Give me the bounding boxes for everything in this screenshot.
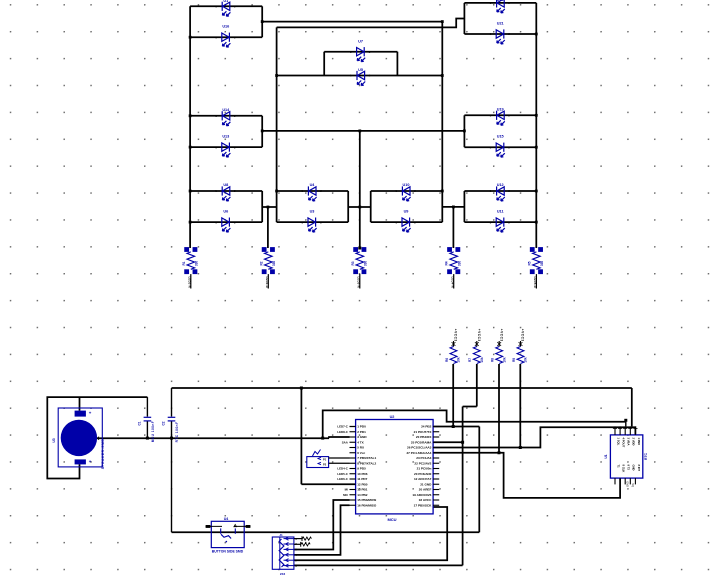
wire inner cell top	[324, 51, 397, 53]
svg-text:12 ADC7/A7: 12 ADC7/A7	[414, 477, 432, 481]
LED U20	[497, 0, 505, 13]
LED U9	[402, 218, 411, 233]
junction	[358, 130, 361, 133]
wire to MCU pin3	[329, 437, 350, 438]
svg-text:8 PB7/XTAL2: 8 PB7/XTAL2	[357, 461, 376, 465]
svg-text:R9: R9	[512, 358, 516, 362]
wire middle-left long vertical	[276, 27, 278, 222]
wire inner cell bottom long	[277, 75, 443, 77]
button U4	[211, 521, 244, 547]
svg-text:C2: C2	[161, 421, 165, 425]
svg-text:330: 330	[457, 261, 461, 267]
LED U6	[222, 218, 231, 233]
junction	[321, 437, 324, 440]
svg-text:9 PD5: 9 PD5	[357, 467, 366, 471]
svg-text:R2: R2	[259, 261, 263, 265]
wire row3 top	[371, 190, 443, 192]
wire C2 top lead	[171, 388, 173, 417]
svg-text:MCU 100nF: MCU 100nF	[151, 421, 155, 442]
svg-text:BUTTON SIDE SMD: BUTTON SIDE SMD	[212, 550, 244, 554]
svg-text:25 PC0/RAMA: 25 PC0/RAMA	[411, 440, 432, 444]
LED U15	[496, 143, 505, 158]
junction	[519, 446, 522, 449]
wire vertical to MCU pin12	[300, 388, 302, 484]
wire speaker top stub	[79, 397, 81, 411]
svg-text:U4: U4	[310, 183, 316, 187]
svg-text:U11: U11	[497, 209, 504, 213]
junction	[535, 114, 538, 117]
junction	[275, 190, 278, 193]
junction	[461, 441, 464, 444]
svg-text:6 Vcc: 6 Vcc	[357, 451, 365, 455]
svg-text:14 PB2: 14 PB2	[357, 493, 368, 497]
LED U11	[496, 218, 505, 233]
junction	[452, 206, 455, 209]
wire row2 right bottom	[464, 146, 536, 148]
LED U1	[222, 2, 230, 17]
svg-text:R8: R8	[491, 358, 495, 362]
wire RESET vertical	[462, 407, 464, 566]
wire ISP pin2	[294, 543, 301, 545]
wire VCC net to RTC pin3	[323, 410, 626, 438]
svg-text:17 PB5/SCK: 17 PB5/SCK	[414, 503, 432, 507]
svg-text:R6: R6	[445, 358, 449, 362]
wire MCU pinR5 to RTC pin5	[433, 427, 635, 447]
svg-text:LED5-R: LED5-R	[533, 277, 537, 288]
junction	[463, 130, 466, 133]
svg-text:7 PB6/XTAL1: 7 PB6/XTAL1	[357, 456, 376, 460]
junction	[261, 20, 264, 23]
svg-text:U20: U20	[497, 0, 504, 2]
MCU U2 body	[356, 420, 434, 514]
svg-text:21 PC0/0n: 21 PC0/0n	[417, 467, 432, 471]
wire big rect top edge with jog	[277, 19, 465, 28]
LED U5	[357, 71, 365, 86]
resistor ISP pin2 series	[300, 542, 302, 547]
wire cell U7/U5 right edge	[396, 52, 398, 76]
svg-text:4 TX: 4 TX	[357, 440, 364, 444]
wire down to RTC pin4	[631, 388, 633, 426]
wire row1 link	[262, 21, 442, 23]
LED U10	[402, 186, 410, 201]
wire row2 left bottom	[190, 146, 262, 148]
svg-text:3 VBA: 3 VBA	[627, 438, 631, 446]
wire button net	[172, 531, 480, 533]
svg-text:U19: U19	[497, 107, 504, 111]
svg-text:RTC 100nF: RTC 100nF	[175, 422, 179, 443]
junction	[535, 190, 538, 193]
wire MCU pinR6 to RTC pin2 bottom	[433, 453, 620, 498]
LED U8	[222, 186, 230, 201]
wire row3 connector middle	[348, 206, 371, 208]
junction	[261, 130, 264, 133]
wire row1 right top	[464, 2, 536, 4]
wire cell U8/U6 right edge	[261, 191, 263, 222]
junction	[535, 221, 538, 224]
svg-text:LED7-C: LED7-C	[337, 425, 348, 429]
svg-text:8 INT: 8 INT	[637, 465, 641, 472]
svg-text:SPEAKER-SMD: SPEAKER-SMD	[101, 439, 105, 470]
svg-text:22 PC2/AV2: 22 PC2/AV2	[414, 461, 431, 465]
svg-text:27 PC4-SDA/AA4: 27 PC4-SDA/AA4	[406, 451, 431, 455]
svg-text:U8: U8	[223, 183, 228, 187]
svg-text:U21: U21	[497, 22, 504, 26]
svg-text:P1: P1	[323, 457, 327, 461]
svg-text:2X3: 2X3	[280, 572, 286, 576]
wire ISP pin6 to RESET	[294, 564, 463, 566]
wire ISP pin1	[294, 538, 302, 540]
wire speaker loop	[47, 397, 147, 478]
svg-text:LED1-R: LED1-R	[187, 277, 191, 288]
wire MCU pinR16 to ISP pin5	[294, 507, 447, 560]
svg-text:R3: R3	[351, 261, 355, 265]
RTC pins	[614, 426, 616, 435]
svg-text:21 POUT/TX: 21 POUT/TX	[414, 430, 433, 434]
svg-text:RTC: RTC	[644, 452, 648, 460]
wire cell U20/U21 left edge	[463, 3, 465, 34]
wire R8 lead	[498, 364, 500, 453]
wire MCU pin15 to ISP pin3	[294, 500, 350, 550]
junction	[441, 190, 444, 193]
wire C1 bottom lead	[146, 421, 148, 438]
svg-text:U2: U2	[390, 415, 395, 419]
svg-text:24 PB2: 24 PB2	[421, 425, 432, 429]
svg-text:U13: U13	[222, 134, 229, 138]
svg-text:19 ADC6/3V6: 19 ADC6/3V6	[412, 493, 431, 497]
svg-text:23 PC1/A3: 23 PC1/A3	[416, 456, 431, 460]
connector J1	[272, 537, 294, 569]
wire cell U12/U11 left edge	[463, 191, 465, 222]
junction	[146, 437, 149, 440]
svg-text:GND: GND	[632, 465, 636, 471]
wire row1 right bottom	[464, 33, 536, 35]
svg-text:LED3-R: LED3-R	[356, 277, 360, 288]
svg-text:P2: P2	[323, 463, 327, 467]
svg-text:U4: U4	[224, 517, 229, 521]
svg-text:U16: U16	[222, 25, 229, 29]
svg-text:LED2-R: LED2-R	[265, 277, 269, 288]
wire row1 left top	[190, 5, 262, 7]
junction	[624, 419, 627, 422]
wire left column bus	[189, 6, 191, 248]
wire cell U4/U3 right edge	[347, 191, 349, 222]
wire row3 top	[277, 190, 349, 192]
LED U3	[308, 218, 317, 233]
wire row3 bottom	[190, 221, 262, 223]
svg-text:20 PC6/AN0: 20 PC6/AN0	[414, 472, 432, 476]
wire MCU pinR1 to button net	[433, 426, 479, 428]
svg-text:LED4-R: LED4-R	[450, 277, 454, 288]
svg-text:J1: J1	[279, 533, 283, 537]
junction	[441, 20, 444, 23]
wire drop to R2	[267, 207, 269, 248]
svg-text:3 GND: 3 GND	[357, 435, 367, 439]
svg-text:330: 330	[272, 261, 276, 267]
wire MCU pinR4 to RESET	[433, 441, 463, 443]
svg-text:R4: R4	[445, 261, 449, 265]
wire crystal to MCU pin8	[329, 462, 350, 464]
wire cell U19/U15 left edge	[463, 115, 465, 147]
svg-text:15 PB3/MOSI: 15 PB3/MOSI	[357, 498, 376, 502]
resistor R3	[353, 247, 358, 252]
svg-text:U1: U1	[604, 454, 608, 458]
resistor R5	[530, 247, 535, 252]
svg-text:+VCC3: +VCC3	[477, 329, 481, 342]
wire to MCU pin12	[301, 483, 355, 485]
svg-text:18 AVCC: 18 AVCC	[419, 498, 432, 502]
wire row3 bottom	[277, 221, 349, 223]
junction	[189, 221, 192, 224]
svg-text:U12: U12	[497, 183, 504, 187]
wire crystal to MCU pin7	[329, 457, 350, 459]
wire R7 lead	[476, 364, 478, 407]
svg-text:21 GND: 21 GND	[420, 482, 432, 486]
junction	[441, 74, 444, 77]
junction	[189, 190, 192, 193]
svg-text:U7: U7	[358, 40, 363, 44]
wire RTC pin3 drop	[625, 422, 627, 427]
svg-text:2 VDD: 2 VDD	[632, 438, 636, 446]
svg-text:SAA: SAA	[342, 440, 349, 444]
svg-text:U1: U1	[223, 0, 228, 3]
svg-text:U5: U5	[358, 68, 363, 72]
svg-text:1 SQL: 1 SQL	[616, 438, 620, 446]
wire RESET jog to R7	[463, 406, 477, 408]
resistor R2	[262, 247, 267, 252]
svg-text:U3: U3	[310, 209, 315, 213]
wire row3 bottom	[464, 221, 536, 223]
svg-text:20 PB4/RX: 20 PB4/RX	[416, 435, 432, 439]
svg-text:R1: R1	[182, 261, 186, 265]
wire row3 connector left	[262, 206, 276, 208]
svg-text:+VCC3: +VCC3	[521, 329, 525, 342]
resistor R1	[184, 247, 189, 252]
wire top long net	[172, 387, 632, 389]
resistor ISP pin1 series	[301, 536, 303, 541]
svg-text:SQ: SQ	[631, 483, 635, 487]
wire middle-right bus	[441, 22, 443, 223]
wire cell U1/U16 right edge	[261, 6, 263, 37]
svg-text:+: +	[89, 459, 92, 464]
svg-text:26 PC1/SCL/AA3: 26 PC1/SCL/AA3	[407, 446, 432, 450]
junction	[189, 146, 192, 149]
svg-text:13 PB1: 13 PB1	[357, 488, 368, 492]
LED U4	[308, 186, 316, 201]
junction	[498, 451, 501, 454]
svg-text:330: 330	[194, 261, 198, 267]
wire row1 left bottom	[190, 36, 262, 38]
junction	[535, 33, 538, 36]
svg-text:2 PD1: 2 PD1	[357, 430, 366, 434]
junction	[267, 206, 270, 209]
junction	[275, 74, 278, 77]
wire cell U10/U9 left edge	[370, 191, 372, 222]
svg-text:10k: 10k	[502, 357, 506, 363]
wire row3 top	[464, 190, 536, 192]
LED U21	[496, 29, 505, 44]
RTC U1 body	[610, 435, 642, 478]
wire R9 lead	[519, 364, 521, 448]
wire button to MCU pin	[478, 427, 480, 533]
svg-text:5 RX: 5 RX	[357, 446, 365, 450]
wire row3 top	[190, 190, 262, 192]
svg-text:R5: R5	[527, 261, 531, 265]
svg-text:U10: U10	[403, 183, 410, 187]
junction	[535, 146, 538, 149]
wire stub	[350, 426, 356, 428]
svg-text:330: 330	[363, 261, 367, 267]
junction	[358, 206, 361, 209]
capacitor C2	[168, 417, 176, 421]
LED U14	[222, 111, 230, 126]
junction	[170, 437, 173, 440]
LED U12	[497, 186, 505, 201]
wire row3 connector right	[442, 206, 464, 208]
svg-text:R7: R7	[468, 358, 472, 362]
junction	[189, 114, 192, 117]
LED U7	[357, 47, 366, 62]
LED U16	[222, 33, 231, 48]
junction	[300, 387, 303, 390]
svg-text:U15: U15	[497, 135, 504, 139]
wire row2 link	[262, 130, 464, 132]
svg-text:T1: T1	[616, 465, 620, 469]
svg-text:10k: 10k	[457, 357, 461, 363]
wire row2 left top	[190, 115, 262, 117]
svg-text:+VCC3: +VCC3	[454, 329, 458, 342]
wire row3 bottom	[371, 221, 443, 223]
LED U19	[497, 111, 505, 126]
svg-text:MO: MO	[343, 493, 348, 497]
resistor R4	[447, 247, 452, 252]
svg-text:10k: 10k	[480, 357, 484, 363]
svg-text:U6: U6	[223, 209, 228, 213]
svg-text:20 AREF: 20 AREF	[419, 488, 432, 492]
wire MCU pin16 to ISP pin4	[294, 505, 350, 555]
svg-text:GND: GND	[626, 481, 630, 487]
svg-text:U9: U9	[404, 209, 409, 213]
wire C2 bottom lead / left loop	[171, 421, 173, 532]
svg-text:16 PB4/MISO: 16 PB4/MISO	[357, 503, 377, 507]
svg-text:+VCC3: +VCC3	[499, 329, 503, 342]
svg-text:10 PD6: 10 PD6	[357, 472, 368, 476]
LED U13	[222, 143, 231, 158]
svg-text:LED6-C: LED6-C	[337, 477, 348, 481]
svg-text:LED8-C: LED8-C	[337, 430, 348, 434]
wire right column bus	[535, 3, 537, 248]
svg-text:MCU: MCU	[387, 517, 396, 522]
svg-text:12 PB0: 12 PB0	[357, 482, 368, 486]
crystal Y1	[307, 457, 329, 468]
wire center drop to R3	[359, 131, 361, 248]
wire speaker net horizontal	[97, 437, 330, 439]
svg-text:U14: U14	[222, 108, 230, 112]
wire R6 lead	[452, 364, 454, 427]
wire cell U14/U13 right edge	[261, 116, 263, 147]
wire drop to R4	[452, 207, 454, 248]
junction	[358, 247, 361, 250]
speaker U3	[52, 408, 105, 469]
capacitor C1	[144, 417, 152, 421]
svg-text:1 PB0: 1 PB0	[637, 438, 641, 446]
wire C1 top lead	[146, 397, 148, 417]
svg-text:11 PD7: 11 PD7	[357, 477, 367, 481]
svg-text:C1: C1	[137, 421, 141, 425]
svg-text:10k: 10k	[524, 357, 528, 363]
svg-text:9 T2: 9 T2	[627, 465, 631, 471]
junction	[189, 36, 192, 39]
svg-text:U3: U3	[52, 438, 56, 442]
svg-text:MI: MI	[345, 488, 348, 492]
svg-text:LED5-C: LED5-C	[337, 472, 348, 476]
svg-text:8 CLK: 8 CLK	[622, 465, 626, 473]
svg-text:4 POUT: 4 POUT	[622, 438, 626, 448]
svg-text:LED4-C: LED4-C	[337, 467, 348, 471]
wire row2 right top	[464, 114, 536, 116]
speaker pin mark	[96, 437, 99, 440]
wire cell U7/U5 left edge	[323, 52, 325, 76]
svg-text:+: +	[89, 411, 92, 416]
svg-text:330: 330	[540, 261, 544, 267]
svg-text:1 PD0: 1 PD0	[357, 425, 366, 429]
MCU pins and labels	[350, 426, 356, 428]
junction	[452, 425, 455, 428]
